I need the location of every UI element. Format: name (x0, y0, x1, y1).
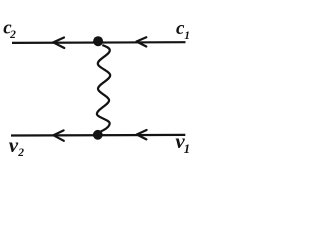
vertex dot (top) (93, 36, 103, 46)
svg-text:1: 1 (184, 141, 191, 156)
wire: top fermion line c2-c1 (12, 41, 186, 44)
svg-text:v: v (9, 133, 19, 157)
arrow on top-left segment (points left) (53, 38, 64, 49)
svg-text:2: 2 (9, 29, 16, 41)
photon propagator: wavy line (97, 45, 110, 131)
svg-text:2: 2 (17, 147, 24, 159)
arrow on bottom-left segment (points left) (54, 130, 64, 140)
vertex dot (bottom) (93, 130, 103, 140)
svg-text:1: 1 (184, 30, 190, 42)
arrow on top-right segment (points left) (137, 37, 147, 46)
arrow on bottom-right segment (points left) (137, 130, 147, 139)
wire: bottom fermion line v2-v1 (11, 134, 185, 137)
